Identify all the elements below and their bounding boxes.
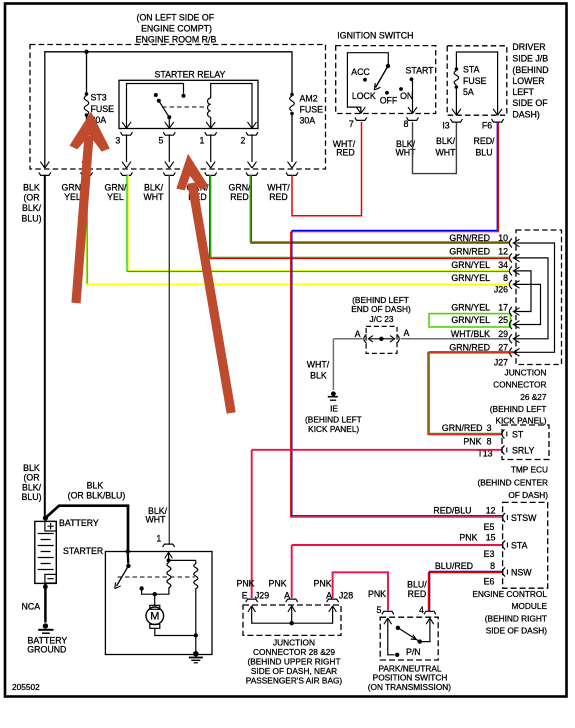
svg-text:ST: ST (512, 430, 524, 440)
svg-text:(OR BLK/BLU): (OR BLK/BLU) (68, 490, 126, 500)
svg-text:JUNCTION: JUNCTION (505, 367, 547, 377)
svg-text:FUSE: FUSE (300, 105, 324, 115)
svg-text:ENGINE COMPT): ENGINE COMPT) (141, 24, 212, 34)
label BLK col1 lower (21, 463, 41, 502)
svg-text:E5: E5 (484, 522, 495, 532)
ECM pin STSW E5-12 (503, 513, 538, 523)
junction 26/27 pin 12 (509, 253, 519, 262)
node bus junction (84, 50, 88, 54)
svg-text:GRN/YEL: GRN/YEL (451, 302, 490, 312)
svg-text:MODULE: MODULE (512, 601, 548, 611)
svg-text:STA: STA (463, 65, 480, 75)
svg-text:DRIVER: DRIVER (512, 42, 545, 52)
wire GRN/RED 27 to TMP ST (428, 352, 513, 435)
label BLU/RED vertical (407, 580, 427, 616)
svg-text:ACC: ACC (351, 67, 370, 77)
relay contact section (127, 84, 186, 129)
svg-text:ENGINE CONTROL: ENGINE CONTROL (472, 589, 547, 599)
svg-text:KICK PANEL): KICK PANEL) (308, 424, 359, 434)
ignition pin 8 (404, 117, 419, 128)
starter internals: battery contact and arm (115, 549, 131, 588)
svg-text:AM2: AM2 (300, 94, 318, 104)
svg-text:(ON LEFT SIDE OF: (ON LEFT SIDE OF (137, 13, 215, 23)
svg-text:FUSE: FUSE (463, 76, 487, 86)
svg-text:GRN/RED: GRN/RED (442, 423, 483, 433)
svg-text:START: START (405, 65, 434, 75)
svg-text:29: 29 (498, 329, 508, 339)
svg-text:205502: 205502 (12, 682, 40, 692)
svg-text:(BEHIND LEFT: (BEHIND LEFT (305, 414, 362, 424)
ignition pin 7 (349, 117, 367, 128)
svg-text:12: 12 (498, 247, 508, 257)
svg-text:ST3: ST3 (91, 93, 107, 103)
svg-text:PNK: PNK (269, 579, 287, 589)
svg-text:4: 4 (419, 605, 424, 615)
svg-text:OFF: OFF (380, 95, 398, 105)
svg-text:POSITION SWITCH: POSITION SWITCH (373, 672, 448, 682)
svg-text:GRN/YEL: GRN/YEL (451, 315, 490, 325)
svg-text:5: 5 (158, 136, 163, 146)
svg-text:(BEHIND UPPER RIGHT: (BEHIND UPPER RIGHT (247, 656, 340, 666)
svg-text:WHT: WHT (145, 514, 166, 524)
svg-text:J26: J26 (494, 285, 508, 295)
svg-text:YEL: YEL (64, 192, 81, 202)
svg-text:FUSE: FUSE (91, 104, 115, 114)
ground IE (305, 391, 362, 434)
svg-text:IGNITION SWITCH: IGNITION SWITCH (337, 31, 413, 41)
svg-text:M: M (150, 611, 159, 623)
wire BLK col1 to battery (44, 175, 46, 516)
svg-text:ENGINE ROOM R/B: ENGINE ROOM R/B (136, 35, 217, 45)
junction 26/27 pin 25 (509, 320, 519, 329)
ECM pin STA E3-15 (503, 541, 528, 551)
svg-text:GRN/YEL: GRN/YEL (451, 273, 490, 283)
svg-text:GRN/: GRN/ (105, 182, 128, 192)
svg-text:KICK PANEL): KICK PANEL) (495, 416, 546, 426)
wire GRN/YEL col3 to row34 (127, 175, 510, 272)
TMP ECU pin SRLY (502, 446, 535, 456)
battery (35, 518, 99, 583)
svg-text:8: 8 (404, 119, 409, 129)
svg-text:15: 15 (486, 533, 496, 543)
wire BLK/WHT col4 to starter pin1 (168, 175, 170, 544)
junction row labels (449, 233, 508, 368)
svg-text:10: 10 (498, 233, 508, 243)
svg-text:JUNCTION: JUNCTION (273, 637, 315, 647)
svg-text:BLK: BLK (23, 463, 40, 473)
wire BLK/WHT pin8 to I3 (413, 122, 457, 174)
fuse AM2 30A (290, 93, 323, 162)
svg-text:BLU): BLU) (21, 213, 41, 223)
svg-text:J29: J29 (255, 591, 269, 601)
svg-text:PNK: PNK (368, 589, 386, 599)
svg-text:PNK: PNK (314, 579, 332, 589)
svg-text:34: 34 (498, 260, 508, 270)
svg-text:SIDE OF: SIDE OF (512, 98, 548, 108)
label BLK/WHT starter (145, 506, 167, 544)
svg-text:LOCK: LOCK (352, 91, 376, 101)
ECM pin NSW E6-8 (503, 568, 533, 578)
svg-text:RED/: RED/ (473, 136, 495, 146)
relay coil (207, 84, 252, 129)
svg-text:BLK: BLK (310, 371, 327, 381)
svg-text:GRN/YEL: GRN/YEL (451, 260, 490, 270)
engine box bottom pin col6 (246, 162, 258, 176)
label BLK (OR BLK/BLU) horizontal (68, 480, 126, 500)
fuse ST3 30A (84, 92, 114, 162)
pin F6 (482, 119, 504, 130)
svg-text:(BEHIND RIGHT: (BEHIND RIGHT (485, 613, 547, 623)
svg-text:I3: I3 (442, 121, 449, 131)
svg-text:OF DASH): OF DASH) (508, 490, 548, 500)
svg-text:RED: RED (336, 148, 355, 158)
svg-text:30A: 30A (300, 116, 316, 126)
svg-text:A: A (355, 329, 361, 339)
starter box (105, 552, 212, 655)
svg-text:17: 17 (498, 302, 508, 312)
junction 26/27 pin 10 (509, 239, 519, 248)
svg-text:GRN/: GRN/ (229, 182, 252, 192)
svg-text:PASSENGER'S AIR BAG): PASSENGER'S AIR BAG) (246, 676, 343, 686)
svg-text:BLK/: BLK/ (144, 182, 164, 192)
svg-text:26 &27: 26 &27 (520, 392, 547, 402)
label GRN/YEL col3 (105, 182, 128, 202)
svg-text:(BEHIND LEFT: (BEHIND LEFT (490, 404, 547, 414)
engine box bottom pin col3 (121, 162, 133, 176)
annotation arrow 1 (70, 112, 110, 303)
starter motor M (146, 605, 196, 635)
svg-text:NCA: NCA (22, 601, 41, 611)
node battery top (43, 515, 48, 520)
green highlight box GRN/YEL 25 (429, 314, 511, 327)
svg-text:SIDE OF DASH, NEAR: SIDE OF DASH, NEAR (251, 666, 337, 676)
label BLK/WHT col4 (143, 182, 164, 202)
TMP ECU pin ST (502, 430, 524, 440)
P/N pin 4 (424, 611, 436, 624)
junction 26/27 pin 8 (509, 280, 519, 289)
svg-text:BLK/: BLK/ (22, 203, 42, 213)
wire GRN/YEL col2 to row8 (86, 175, 510, 285)
ECM box (503, 502, 548, 588)
label BLK/WHT I3 (435, 136, 456, 158)
svg-text:BLK/: BLK/ (436, 136, 456, 146)
svg-text:END OF DASH): END OF DASH) (351, 304, 411, 314)
driver side J/B box (447, 46, 507, 115)
relay mech link dashed (162, 106, 206, 108)
engine room R/B dashed box (30, 45, 326, 170)
svg-text:BLU/: BLU/ (407, 580, 427, 590)
wire WHT/RED col7 to ignition pin7 (292, 122, 362, 216)
ground starter (189, 651, 203, 663)
svg-text:F6: F6 (482, 121, 492, 131)
svg-text:5: 5 (377, 605, 382, 615)
labels ECM rows (433, 506, 495, 587)
wire ST3 drop (86, 52, 88, 94)
labels PNK J29/J28 (236, 579, 386, 616)
J28 pin A (327, 599, 339, 612)
svg-text:WHT: WHT (435, 148, 456, 158)
svg-text:2: 2 (241, 136, 246, 146)
wire to starter ground (195, 636, 197, 653)
svg-text:E6: E6 (484, 577, 495, 587)
wire WHT/BLK down to IE (332, 339, 334, 390)
starter contact bracket (139, 586, 168, 606)
svg-text:GRN/RED: GRN/RED (449, 233, 490, 243)
svg-text:BLK/: BLK/ (22, 482, 42, 492)
svg-text:1: 1 (156, 534, 161, 544)
svg-text:BATTERY: BATTERY (59, 518, 99, 528)
starter pin 1 (163, 544, 175, 562)
svg-text:LOWER: LOWER (512, 76, 544, 86)
svg-text:27: 27 (498, 342, 508, 352)
labels TMP rows (442, 423, 493, 458)
label GRN/RED col6 (229, 182, 252, 202)
park/neutral position switch box (380, 617, 438, 660)
wire PNK J28 to P/N pin5 (333, 572, 388, 610)
svg-text:STA: STA (511, 541, 528, 551)
caption J/C 23 (351, 295, 411, 324)
svg-text:CONNECTOR: CONNECTOR (493, 380, 546, 390)
wire PNK SRLY (252, 449, 502, 451)
svg-text:8: 8 (503, 273, 508, 283)
svg-text:NSW: NSW (511, 568, 532, 578)
svg-text:3: 3 (487, 423, 492, 433)
relay pin 1 (200, 122, 217, 162)
svg-text:7: 7 (349, 119, 354, 129)
svg-text:1: 1 (200, 136, 205, 146)
svg-text:GROUND: GROUND (27, 645, 66, 655)
wire PNK STA (292, 544, 502, 546)
svg-text:25: 25 (498, 315, 508, 325)
junction internal links (518, 243, 555, 352)
node starter ground junction (194, 633, 198, 637)
wire WHT/BLK J/C23 to pin29 (333, 338, 509, 340)
svg-text:GRN/RED: GRN/RED (449, 342, 490, 352)
svg-text:STARTER RELAY: STARTER RELAY (155, 70, 226, 80)
J28/29 internal bus (252, 607, 333, 626)
junction connector 26 27 box (516, 230, 562, 365)
svg-text:RED/BLU: RED/BLU (433, 506, 471, 516)
svg-text:(BEHIND: (BEHIND (512, 65, 548, 75)
svg-text:8: 8 (490, 561, 495, 571)
svg-text:RED: RED (230, 192, 249, 202)
label GRN/YEL col2 (62, 182, 85, 202)
svg-text:WHT/BLK: WHT/BLK (451, 329, 490, 339)
annotation arrow 2 (176, 154, 231, 413)
svg-text:SRLY: SRLY (512, 446, 534, 456)
wire battery to ground (44, 583, 47, 622)
svg-text:J28: J28 (339, 591, 353, 601)
svg-text:LEFT: LEFT (512, 87, 534, 97)
svg-text:STARTER: STARTER (63, 546, 103, 556)
ignition switch arm (374, 64, 390, 90)
wire BLU/RED NSW (428, 571, 502, 611)
junction connector 28 29 box (243, 605, 341, 635)
wire GRN/RED col6 to row10 (250, 175, 509, 244)
wire bus top (45, 52, 292, 168)
J/B internal (452, 52, 502, 115)
ground battery (27, 623, 67, 654)
svg-text:YEL: YEL (107, 192, 124, 202)
caption TMP ECU (477, 465, 548, 500)
svg-text:BLU): BLU) (21, 492, 41, 502)
svg-text:3: 3 (115, 136, 120, 146)
caption driver side J/B (512, 42, 548, 119)
thick wire battery to starter (45, 506, 128, 552)
junction 26/27 pin 29 (509, 334, 519, 343)
relay pin 3 (115, 122, 132, 162)
svg-text:GRN/RED: GRN/RED (449, 247, 490, 257)
starter relay box (119, 70, 258, 129)
svg-text:IE: IE (330, 404, 338, 414)
svg-text:PNK: PNK (463, 437, 481, 447)
svg-text:WHT/: WHT/ (267, 182, 290, 192)
svg-text:BLU: BLU (475, 148, 492, 158)
svg-text:BLK: BLK (87, 480, 104, 490)
svg-text:5A: 5A (463, 87, 474, 97)
junction 26/27 pin 27 (509, 348, 519, 357)
wire GRN/RED col5 to row12 (210, 175, 510, 259)
J/C 23 internals (355, 328, 410, 343)
engine box bottom pin col4 (163, 162, 175, 176)
svg-text:J27: J27 (494, 358, 508, 368)
svg-text:SIDE J/B: SIDE J/B (512, 54, 548, 64)
label GRN/RED col5 (187, 182, 210, 202)
J29 pin A (286, 599, 298, 612)
TMP ECU box (502, 425, 549, 460)
engine box bottom pin col7 (286, 162, 298, 176)
caption junction connector 26 27 (490, 367, 547, 425)
svg-text:DASH): DASH) (512, 109, 539, 119)
engine box bottom pin col5 (205, 162, 217, 176)
P/N pin 5 (382, 611, 394, 624)
relay pin 2 (241, 122, 258, 162)
svg-text:RED: RED (269, 192, 288, 202)
label WHT/RED col7 (267, 182, 290, 202)
label BLK (OR BLK/BLU) col1 (21, 182, 41, 223)
svg-text:RED: RED (408, 589, 427, 599)
svg-text:PNK: PNK (236, 579, 254, 589)
junction 26/27 pin 34 (509, 266, 519, 275)
svg-text:12: 12 (486, 506, 496, 516)
starter solenoid coils (167, 560, 198, 635)
starter dashed link (118, 576, 195, 578)
engine box bottom pin col2 (81, 162, 93, 176)
svg-text:TMP ECU: TMP ECU (511, 465, 548, 475)
svg-text:SIDE OF DASH): SIDE OF DASH) (486, 626, 548, 636)
svg-text:WHT: WHT (143, 192, 164, 202)
svg-text:ON: ON (400, 91, 413, 101)
wire RED/BLU F6 to STSW (291, 121, 503, 517)
caption engine room (136, 13, 217, 45)
junction 26/27 pin 17 (509, 307, 519, 316)
svg-text:BLK: BLK (23, 182, 40, 192)
ignition internal wires (347, 53, 417, 114)
svg-text:E3: E3 (484, 549, 495, 559)
J29 pin E (246, 599, 258, 612)
svg-text:J/C 23: J/C 23 (370, 314, 394, 324)
svg-text:(OR: (OR (23, 193, 39, 203)
svg-text:PNK: PNK (459, 533, 477, 543)
engine box bottom pin col1 (39, 162, 51, 176)
svg-text:(OR: (OR (23, 473, 39, 483)
node battery bottom (43, 584, 48, 589)
caption junction connector 28 29 (246, 637, 343, 685)
svg-text:BLU/RED: BLU/RED (435, 561, 473, 571)
svg-text:A: A (403, 328, 409, 338)
fuse STA 5A (454, 65, 486, 116)
J/C 23 box (366, 326, 397, 353)
P/N internals (388, 619, 430, 658)
label WHT/RED pin7 (333, 139, 356, 158)
pin I3 (442, 119, 462, 130)
svg-text:STSW: STSW (511, 513, 537, 523)
svg-text:P/N: P/N (406, 647, 421, 657)
label WHT/BLK (307, 360, 330, 381)
svg-text:(ON TRANSMISSION): (ON TRANSMISSION) (368, 682, 452, 692)
caption P/N switch (368, 663, 452, 692)
svg-text:WHT/: WHT/ (307, 360, 330, 370)
label BLK/WHT pin8 (395, 139, 416, 158)
label RED/BLU F6 (473, 136, 495, 158)
ignition position dots (363, 78, 367, 82)
svg-text:8: 8 (487, 437, 492, 447)
relay pin 5 (158, 122, 175, 162)
svg-text:(BEHIND CENTER: (BEHIND CENTER (477, 477, 548, 487)
caption ECM (472, 589, 547, 636)
